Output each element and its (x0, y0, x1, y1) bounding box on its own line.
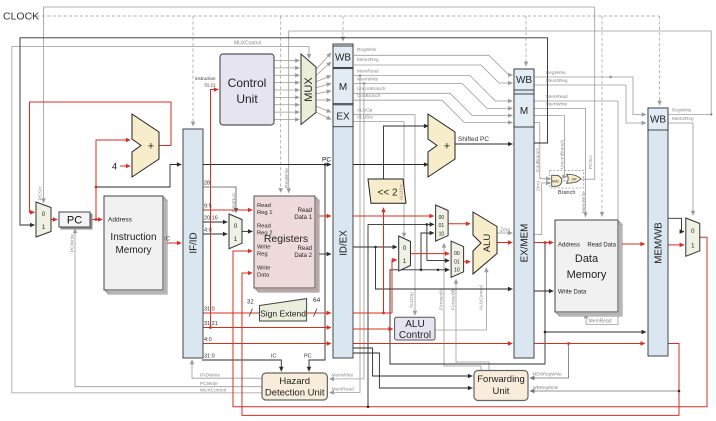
svg-text:IFIDWrite: IFIDWrite (200, 373, 220, 379)
svg-text:RegWrite: RegWrite (672, 108, 692, 113)
svg-text:RegWrite: RegWrite (357, 47, 377, 52)
svg-text:31:21: 31:21 (204, 83, 216, 88)
svg-text:Write: Write (257, 266, 270, 272)
svg-text:Read: Read (298, 208, 312, 214)
svg-text:PC: PC (304, 354, 312, 360)
svg-text:20:16: 20:16 (204, 216, 218, 222)
svg-text:01: 01 (454, 259, 460, 265)
svg-text:Unit: Unit (236, 92, 258, 106)
svg-text:64: 64 (313, 297, 321, 304)
svg-text:Write Data: Write Data (558, 290, 587, 296)
svg-text:Control: Control (399, 330, 431, 341)
svg-text:4:0: 4:0 (204, 337, 212, 343)
svg-text:MemRead: MemRead (589, 319, 612, 325)
svg-text:01: 01 (439, 223, 445, 229)
svg-text:MEM/WB: MEM/WB (654, 222, 665, 264)
svg-text:<< 2: << 2 (377, 188, 397, 199)
svg-text:AND: AND (552, 179, 560, 183)
svg-text:MemRead: MemRead (332, 387, 354, 393)
svg-text:ALU: ALU (405, 319, 424, 330)
svg-text:9:5: 9:5 (204, 204, 212, 210)
svg-text:Data: Data (575, 253, 599, 265)
svg-text:10: 10 (439, 232, 445, 238)
svg-text:RegWrite: RegWrite (546, 70, 566, 75)
svg-text:IC: IC (164, 237, 171, 243)
svg-text:PCSrc: PCSrc (38, 186, 44, 200)
svg-text:Reg: Reg (257, 252, 268, 258)
svg-text:MUX: MUX (303, 77, 315, 102)
svg-text:M: M (520, 106, 528, 117)
svg-text:00: 00 (454, 251, 460, 257)
svg-text:PCSrc: PCSrc (588, 155, 594, 169)
svg-text:31:0: 31:0 (204, 307, 215, 313)
svg-text:Sign Extend: Sign Extend (260, 309, 306, 319)
svg-text:MemWrite: MemWrite (581, 191, 587, 213)
svg-text:Zero: Zero (536, 181, 542, 191)
svg-text:UnconBranch: UnconBranch (560, 140, 566, 169)
svg-text:ForwardB: ForwardB (451, 289, 457, 310)
svg-text:Branch: Branch (558, 190, 575, 196)
svg-text:IC: IC (271, 354, 277, 360)
svg-text:Detection Unit: Detection Unit (265, 388, 325, 399)
svg-text:00: 00 (439, 215, 445, 221)
svg-text:OR: OR (571, 178, 577, 182)
svg-text:MemWrite: MemWrite (546, 102, 568, 107)
svg-text:ALUSrc: ALUSrc (357, 115, 374, 120)
svg-text:MUXControl: MUXControl (234, 41, 261, 47)
svg-text:ALUOp: ALUOp (409, 292, 415, 308)
svg-text:Read: Read (257, 224, 271, 230)
svg-text:MemRead: MemRead (357, 69, 379, 74)
svg-text:Hazard: Hazard (279, 376, 310, 387)
svg-text:Data 1: Data 1 (294, 215, 312, 221)
svg-text:Mem2Reg: Mem2Reg (672, 116, 694, 121)
svg-text:MemWrite: MemWrite (357, 77, 379, 82)
svg-text:RegZLoc: RegZLoc (231, 192, 237, 212)
svg-text:ForwardA: ForwardA (439, 288, 445, 310)
svg-text:Data 2: Data 2 (294, 253, 312, 259)
svg-text:instruction: instruction (195, 76, 216, 81)
svg-text:Forwarding: Forwarding (477, 374, 525, 385)
svg-text:ALUSrc: ALUSrc (399, 183, 405, 200)
svg-text:+: + (444, 141, 450, 153)
svg-text:UnconBranch: UnconBranch (357, 86, 386, 91)
svg-text:ALUOp: ALUOp (357, 108, 373, 113)
svg-text:EX: EX (336, 111, 350, 122)
svg-text:ConBranch: ConBranch (357, 93, 381, 98)
svg-text:Unit: Unit (493, 386, 510, 397)
svg-text:ALU: ALU (482, 234, 493, 253)
svg-text:28: 28 (204, 181, 210, 187)
svg-text:Memory: Memory (567, 269, 607, 281)
svg-text:WB: WB (516, 75, 532, 86)
svg-text:ID/EX: ID/EX (339, 230, 350, 256)
svg-text:Read: Read (298, 246, 312, 252)
svg-text:Address: Address (558, 243, 580, 249)
svg-text:Mem2Reg: Mem2Reg (357, 57, 379, 62)
svg-text:ConBranch: ConBranch (535, 148, 541, 172)
svg-text:MemRead: MemRead (546, 94, 568, 99)
svg-text:PC: PC (67, 215, 82, 227)
svg-text:WB: WB (335, 52, 351, 63)
svg-text:Data: Data (257, 273, 270, 279)
svg-text:Mem2Reg: Mem2Reg (546, 78, 568, 83)
svg-text:31:21: 31:21 (204, 321, 218, 327)
svg-text:Read: Read (257, 203, 271, 209)
svg-text:ALUControl: ALUControl (479, 285, 485, 310)
svg-text:CLOCK: CLOCK (3, 11, 39, 23)
svg-text:WBRegWrite: WBRegWrite (533, 385, 559, 390)
svg-text:Instruction: Instruction (110, 232, 156, 243)
svg-text:WB: WB (650, 115, 666, 126)
svg-text:IF/ID: IF/ID (189, 232, 200, 253)
svg-text:Zero: Zero (500, 228, 511, 234)
svg-text:4:0: 4:0 (204, 228, 212, 234)
svg-text:Write: Write (257, 245, 270, 251)
svg-text:MUXControl: MUXControl (200, 388, 226, 394)
svg-text:Read Data: Read Data (587, 243, 616, 249)
svg-text:Memory: Memory (115, 245, 151, 256)
svg-text:PC: PC (322, 157, 331, 164)
svg-text:+: + (148, 141, 154, 153)
svg-text:EX/MEM: EX/MEM (520, 224, 531, 263)
svg-text:MemWrite: MemWrite (332, 373, 354, 379)
svg-text:PCWrite: PCWrite (70, 234, 76, 252)
svg-text:Reg 1: Reg 1 (257, 210, 272, 216)
svg-text:Control: Control (228, 76, 267, 90)
svg-text:Shifted PC: Shifted PC (458, 136, 489, 143)
svg-text:M: M (339, 82, 347, 93)
svg-text:32: 32 (247, 300, 254, 306)
svg-text:PCWrite: PCWrite (200, 381, 218, 387)
svg-text:10: 10 (454, 268, 460, 274)
svg-text:4: 4 (112, 162, 117, 172)
svg-text:31:0: 31:0 (204, 354, 215, 360)
svg-text:MEMRegWrite: MEMRegWrite (533, 372, 563, 377)
svg-text:Registers: Registers (264, 233, 308, 245)
svg-text:RegWrite: RegWrite (284, 168, 290, 188)
svg-text:Address: Address (108, 217, 133, 224)
